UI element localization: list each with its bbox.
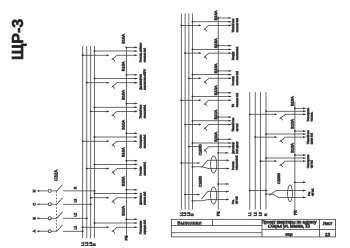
svg-text:Кондёр: Кондёр (232, 51, 235, 60)
title block Лист / sheet number 13 (323, 221, 333, 237)
breaker QF feeder 5 (group 1): phase wire (86, 168, 110, 170)
svg-text:С32А: С32А (53, 170, 58, 181)
value label С16/30 (Д3) (277, 173, 281, 184)
load label (Д2) (232, 196, 239, 204)
busbar label PE (group 1) (124, 235, 128, 240)
N wire feeder 3 (group 2) (192, 74, 232, 76)
value label В16А feeder 3 (group 1) (120, 90, 125, 100)
svg-text:В10А: В10А (213, 109, 218, 119)
busbar label PE (group 2) (216, 211, 220, 216)
busbar L1 (group 2) (180, 14, 182, 210)
breaker QF feeder 5 (group 1): blade and trip mark (112, 169, 117, 175)
node label L1 (73, 226, 77, 230)
switch pole N of QS1 (51, 185, 94, 191)
svg-text:вщз: вщз (285, 232, 292, 237)
svg-text:В: В (32, 217, 36, 220)
svg-text:Освещение: Освещение (139, 220, 142, 234)
svg-text:L1: L1 (73, 226, 77, 230)
wire after breaker, feeder 1 (group 2) (209, 24, 232, 26)
busbar N (group 2) (192, 14, 194, 210)
svg-text:Духовка и: Духовка и (139, 193, 142, 205)
PE wire feeder 2 (group 3) (294, 130, 306, 132)
PE busbar (group 1) (125, 47, 127, 240)
busbar label L3 (group 1) (89, 242, 93, 246)
incoming wire С with arrow (37, 203, 49, 205)
busbar L3 (group 1) (90, 46, 92, 238)
svg-text:спальня№1: спальня№1 (144, 104, 147, 118)
svg-text:В10А: В10А (213, 85, 218, 95)
svg-text:В10А: В10А (120, 120, 125, 130)
svg-text:N: N (191, 213, 195, 216)
breaker QF feeder 4 (group 1): phase wire (82, 140, 110, 142)
RCD Д3 С16/30: phase wire from bus (249, 190, 268, 192)
svg-text:кухня №1: кухня №1 (311, 132, 314, 144)
N wire feeder 1 (group 2) (192, 21, 232, 23)
junction L2 (86, 217, 88, 219)
N wire feeder 2 (group 3) (265, 133, 306, 135)
svg-text:спальня №2: спальня №2 (236, 18, 239, 33)
value label В16А feeder 1 (group 1) (120, 34, 125, 44)
svg-text:N: N (73, 186, 77, 189)
PE wire feeder 3 (group 2) (217, 70, 231, 72)
svg-text:Освещение: Освещение (139, 134, 142, 148)
busbar label N (group 1) (93, 243, 97, 246)
incoming phase А label (32, 229, 36, 232)
breaker QF feeder 6 (group 2): phase wire (188, 146, 202, 148)
svg-text:Освещение: Освещение (307, 107, 310, 121)
svg-text:В16А: В16А (120, 147, 125, 157)
svg-text:спальня№1: спальня№1 (144, 161, 147, 175)
busbar L1 (group 3) (249, 92, 251, 210)
incoming wire А with arrow (37, 230, 49, 232)
load label feeder 6 (group 1) (139, 191, 146, 205)
svg-text:В16А: В16А (213, 38, 218, 48)
value label В16А feeder 1 (group 3) (290, 96, 295, 106)
RCD Д2 С16/30: phase wire from bus (184, 193, 200, 195)
busbar label L1 (group 1) (81, 242, 85, 246)
svg-text:В16А: В16А (290, 96, 295, 106)
PE wire feeder 6 (group 2) (217, 138, 231, 140)
busbar N (group 3) (265, 92, 267, 210)
RCD Д2: N wire (192, 198, 229, 201)
panel title ЩР-3 (10, 19, 27, 60)
wire after breaker, feeder 2 (group 1) (117, 82, 137, 84)
svg-text:Дух.шкафчик: Дух.шкафчик (139, 74, 142, 90)
svg-text:N: N (93, 243, 97, 246)
svg-text:В10А: В10А (290, 119, 295, 129)
svg-text:N: N (264, 213, 268, 216)
terminal circle N (48, 189, 51, 192)
incoming phase С label (32, 203, 36, 206)
title block project text (261, 219, 317, 236)
wire after breaker, feeder 3 (group 2) (209, 77, 232, 79)
busbar label L2 (group 2) (183, 212, 187, 216)
busbar label N (group 3) (264, 213, 268, 216)
svg-text:PE: PE (124, 235, 128, 240)
svg-text:спальня №2: спальня №2 (236, 70, 239, 85)
svg-text:Тёплый пол: Тёплый пол (232, 117, 235, 131)
wire after breaker, feeder 7 (group 1) (117, 226, 137, 228)
N wire feeder 6 (group 2) (192, 142, 232, 144)
value label С16/30 (Д1) (199, 144, 203, 155)
busbar L3 (group 2) (188, 14, 190, 210)
terminal circle А (48, 230, 51, 233)
breaker QF feeder 2 (group 3): blade and trip mark (280, 137, 286, 143)
svg-text:В10А: В10А (213, 132, 218, 142)
svg-text:с/у №2: с/у №2 (236, 196, 239, 204)
breaker QF feeder 7 (group 1): phase wire (82, 226, 110, 228)
load label feeder 1 (group 1) (139, 42, 146, 62)
busbar label PE (group 3) (294, 210, 298, 215)
RCD Д3: differential toroid (288, 185, 293, 202)
svg-text:С16/30: С16/30 (277, 173, 281, 184)
load label feeder 2 (group 2) (232, 46, 239, 60)
svg-text:PE: PE (216, 211, 220, 216)
busbar label L1 (group 3) (248, 212, 252, 216)
PE wire feeder 3 (group 3) (294, 154, 306, 156)
wire after breaker, feeder 2 (group 2) (209, 52, 232, 54)
load label feeder 2 (group 1) (139, 69, 146, 90)
svg-text:N: N (32, 189, 36, 192)
incoming wire N with arrow (37, 190, 49, 192)
PE busbar (group 3) (294, 102, 296, 213)
value label В16А feeder 3 (group 2) (213, 63, 218, 73)
busbar N (group 1) (94, 46, 96, 238)
breaker QF feeder 5 (group 2): phase wire (184, 123, 201, 125)
svg-text:В16А: В16А (290, 143, 295, 153)
svg-text:13: 13 (325, 232, 331, 237)
value label В10А feeder 2 (group 3) (290, 119, 295, 129)
RCD Д1: differential toroid (211, 156, 217, 173)
svg-text:коридор №1: коридор №1 (144, 219, 147, 234)
switch pole А of QS1 (51, 225, 82, 231)
value label В10А feeder 4 (group 2) (213, 85, 218, 95)
breaker QF feeder 4 (group 2): phase wire (180, 99, 201, 101)
breaker QF feeder 2 (group 1): blade and trip mark (112, 83, 117, 89)
N wire feeder 7 (group 1) (94, 222, 138, 224)
breaker QF feeder 4 (group 1): blade and trip mark (112, 141, 117, 147)
svg-text:Выполнил: Выполнил (178, 221, 202, 226)
svg-text:L1: L1 (248, 212, 252, 216)
RCD Д3: blade (269, 191, 276, 196)
node label L2 (73, 213, 77, 217)
PE wire feeder 4 (group 2) (217, 92, 231, 94)
svg-text:Тёплый пол: Тёплый пол (307, 130, 310, 144)
RCD Д1: N wire (192, 166, 230, 170)
load label feeder 4 (group 1) (139, 134, 146, 148)
wire after breaker, feeder 5 (group 1) (117, 168, 137, 170)
PE wire feeder 6 (group 1) (125, 189, 137, 191)
incoming wire В with arrow (37, 217, 49, 219)
wire after breaker, feeder 1 (group 1) (117, 54, 137, 56)
breaker QF feeder 6 (group 1): blade and trip mark (112, 198, 117, 204)
junction L1 (82, 230, 84, 232)
svg-text:Освещение: Освещение (307, 154, 310, 168)
breaker QF feeder 1 (group 3): blade and trip mark (280, 114, 286, 120)
svg-text:Розетка: Розетка (232, 76, 235, 86)
RCD Д2: blade (202, 192, 208, 199)
busbar label N (group 2) (191, 213, 195, 216)
svg-text:Лист: Лист (323, 221, 333, 226)
svg-text:С16/30: С16/30 (199, 176, 203, 187)
PE wire feeder 3 (group 1) (125, 102, 137, 104)
RCD Д2: differential toroid (211, 187, 217, 204)
busbar L2 (group 1) (86, 46, 88, 238)
value label В16А feeder 3 (group 3) (290, 143, 295, 153)
breaker QF feeder 6 (group 2): blade and trip mark (204, 147, 209, 153)
value label В16А feeder 2 (group 1) (120, 61, 125, 71)
RCD Д3: PE wire (294, 181, 306, 183)
svg-text:панель №1: панель №1 (144, 191, 147, 205)
svg-text:Роз.: Роз. (308, 191, 311, 196)
busbar L2 (group 2) (184, 14, 186, 210)
svg-text:тех.ком.: тех.ком. (311, 112, 314, 122)
value label В10А feeder 6 (group 2) (213, 132, 218, 142)
load label (Д1) (232, 155, 239, 170)
svg-text:Дух.шкаф: Дух.шкаф (232, 142, 235, 154)
breaker QF feeder 3 (group 1): blade and trip mark (112, 111, 117, 117)
svg-text:Тёплый пол: Тёплый пол (232, 18, 235, 32)
load label feeder 5 (group 1) (139, 161, 146, 175)
N wire feeder 4 (group 2) (192, 95, 232, 97)
svg-text:L3: L3 (259, 212, 263, 216)
svg-text:с/у №2: с/у №2 (236, 123, 239, 132)
breaker QF feeder 2 (group 2): blade and trip mark (204, 53, 209, 59)
breaker QF feeder 3 (group 3): phase wire (260, 160, 278, 162)
value label В16А feeder 1 (group 2) (213, 10, 218, 20)
load label (Д3) (308, 188, 315, 196)
wire after breaker, feeder 6 (group 2) (209, 146, 232, 148)
PE busbar (group 2) (217, 18, 219, 210)
breaker QF feeder 3 (group 2): phase wire (188, 77, 202, 79)
junction N (94, 190, 96, 192)
N wire feeder 4 (group 1) (94, 136, 138, 138)
svg-text:L2: L2 (253, 212, 257, 216)
breaker QF feeder 2 (group 3): phase wire (254, 136, 277, 138)
svg-text:L2: L2 (73, 213, 77, 217)
load label feeder 4 (group 2) (232, 92, 239, 107)
N wire feeder 3 (group 1) (94, 106, 138, 108)
breaker QF feeder 5 (group 2): blade and trip mark (204, 125, 209, 131)
PE wire feeder 1 (group 3) (294, 107, 306, 109)
load label feeder 6 (group 2) (232, 141, 239, 154)
RCD Д1: blade (202, 160, 208, 167)
load label feeder 7 (group 1) (139, 219, 146, 234)
breaker QF feeder 2 (group 1): phase wire (86, 82, 110, 84)
busbar label L1 (group 2) (179, 212, 183, 216)
load label feeder 2 (group 3) (307, 130, 314, 144)
breaker QF feeder 1 (group 2): phase wire (180, 24, 201, 26)
junction L3 (90, 203, 92, 205)
RCD Д1 С16/30: phase wire from bus (180, 162, 200, 164)
wire after breaker, feeder 4 (group 1) (117, 140, 137, 142)
value label В16А feeder 5 (group 1) (120, 147, 125, 157)
svg-text:В25А: В25А (120, 176, 125, 186)
breaker QF feeder 3 (group 1): phase wire (90, 110, 110, 112)
busbar L2 (group 3) (254, 92, 256, 210)
switch QS1 mechanical link (dashed) (55, 191, 57, 232)
value label В16А feeder 2 (group 2) (213, 38, 218, 48)
PE wire feeder 2 (group 1) (125, 74, 137, 76)
value label С32А (53, 170, 58, 181)
svg-text:г.Харьк ул. Манка, 10: г.Харьк ул. Манка, 10 (268, 224, 311, 229)
svg-text:Теплый пол: Теплый пол (139, 104, 142, 118)
PE wire feeder 2 (group 2) (217, 45, 231, 47)
PE wire feeder 5 (group 1) (125, 160, 137, 162)
breaker QF feeder 4 (group 2): blade and trip mark (204, 100, 209, 106)
RCD Д1: phase wire through toroid (208, 159, 230, 161)
RCD Д1: PE wire (217, 152, 228, 154)
RCD Д2: phase wire through toroid (208, 191, 229, 193)
svg-text:перемычка вЩР2: перемычка вЩР2 (144, 69, 147, 90)
terminal circle В (48, 217, 51, 220)
N wire feeder 2 (group 2) (192, 48, 232, 50)
wire after breaker, feeder 4 (group 2) (209, 99, 232, 101)
busbar label L3 (group 2) (187, 212, 191, 216)
load label feeder 3 (group 2) (232, 70, 239, 85)
busbar L3 (group 3) (260, 92, 262, 210)
incoming phase N label (32, 189, 36, 192)
value label В10А feeder 7 (group 1) (120, 206, 125, 216)
N wire feeder 6 (group 1) (94, 192, 138, 194)
svg-text:А: А (32, 229, 36, 232)
wire after breaker, feeder 1 (group 3) (286, 113, 306, 115)
svg-text:В10А: В10А (120, 206, 125, 216)
svg-text:ЩР-3: ЩР-3 (10, 19, 27, 60)
svg-text:с/у №1: с/у №1 (312, 188, 315, 196)
svg-text:спальня№1: спальня№1 (236, 46, 239, 60)
svg-text:спальня№1: спальня№1 (144, 134, 147, 148)
breaker QF feeder 3 (group 2): blade and trip mark (204, 78, 209, 84)
N wire feeder 2 (group 1) (94, 77, 138, 79)
svg-text:с/у №1: с/у №1 (311, 160, 314, 169)
RCD Д3: phase wire through toroid (276, 190, 306, 192)
incoming phase В label (32, 217, 36, 220)
svg-text:спальня №1: спальня №1 (144, 47, 147, 62)
svg-text:3.0А кухня: 3.0А кухня (236, 141, 239, 154)
breaker QF feeder 2 (group 2): phase wire (184, 52, 201, 54)
PE wire feeder 1 (group 2) (217, 17, 231, 19)
title block frame (171, 219, 335, 237)
svg-text:Роз.: Роз. (232, 199, 235, 204)
wire after breaker, feeder 2 (group 3) (286, 136, 306, 138)
load label feeder 3 (group 3) (307, 154, 314, 168)
svg-text:Розетки: Розетки (139, 166, 142, 176)
PE wire feeder 1 (group 1) (125, 46, 137, 48)
breaker QF feeder 1 (group 1): blade and trip mark (112, 55, 117, 61)
svg-text:С16/30: С16/30 (199, 144, 203, 155)
svg-text:В16А: В16А (120, 34, 125, 44)
svg-text:PE: PE (294, 210, 298, 215)
breaker QF feeder 3 (group 3): blade and trip mark (280, 161, 286, 167)
RCD Д3: N wire (265, 193, 306, 198)
load label feeder 1 (group 2) (232, 18, 239, 33)
busbar label L2 (group 1) (85, 242, 89, 246)
title block text Выполнил (178, 221, 202, 226)
svg-text:ТВ: ТВ (232, 104, 235, 108)
load label feeder 1 (group 3) (307, 107, 314, 121)
switch pole В of QS1 (51, 212, 87, 218)
PE wire feeder 5 (group 2) (217, 116, 231, 118)
svg-text:стир.маш№2: стир.маш№2 (236, 155, 239, 170)
breaker QF feeder 1 (group 1): phase wire (82, 54, 110, 56)
svg-text:спальня №2: спальня №2 (236, 92, 239, 107)
svg-text:Розетки, кабинет: Розетки, кабинет (139, 42, 142, 62)
wire after breaker, feeder 5 (group 2) (209, 123, 232, 125)
svg-text:Розетка: Розетка (232, 161, 235, 170)
RCD Д2: PE wire (217, 183, 229, 185)
N wire feeder 1 (group 1) (94, 50, 138, 52)
value label В10А feeder 5 (group 2) (213, 109, 218, 119)
svg-text:В16А: В16А (120, 90, 125, 100)
switch pole С of QS1 (51, 198, 90, 204)
terminal circle С (48, 203, 51, 206)
load label feeder 3 (group 1) (139, 104, 146, 118)
PE wire feeder 7 (group 1) (125, 218, 137, 220)
node label N (73, 186, 77, 189)
svg-text:В16А: В16А (213, 10, 218, 20)
value label С16/30 (Д2) (199, 176, 203, 187)
N wire feeder 3 (group 3) (265, 157, 306, 159)
busbar label L2 (group 3) (253, 212, 257, 216)
N wire feeder 5 (group 1) (94, 163, 138, 165)
busbar L1 (group 1) (82, 46, 84, 238)
breaker QF feeder 6 (group 1): phase wire (90, 197, 110, 199)
PE wire feeder 4 (group 1) (125, 132, 137, 134)
N wire feeder 1 (group 3) (265, 110, 306, 112)
breaker QF feeder 7 (group 1): blade and trip mark (112, 227, 117, 233)
value label В10А feeder 4 (group 1) (120, 120, 125, 130)
wire after breaker, feeder 3 (group 3) (286, 160, 306, 162)
svg-text:В16А: В16А (120, 61, 125, 71)
svg-text:С: С (32, 203, 36, 206)
value label В25А feeder 6 (group 1) (120, 176, 125, 186)
N wire feeder 5 (group 2) (192, 120, 232, 122)
node label L3 (73, 199, 77, 203)
svg-text:В16А: В16А (213, 63, 218, 73)
svg-text:L3: L3 (73, 199, 77, 203)
load label feeder 5 (group 2) (232, 117, 239, 131)
wire after breaker, feeder 6 (group 1) (117, 197, 137, 199)
breaker QF feeder 1 (group 3): phase wire (249, 113, 277, 115)
breaker QF feeder 1 (group 2): blade and trip mark (204, 25, 209, 31)
wire after breaker, feeder 3 (group 1) (117, 110, 137, 112)
busbar label L3 (group 3) (259, 212, 263, 216)
